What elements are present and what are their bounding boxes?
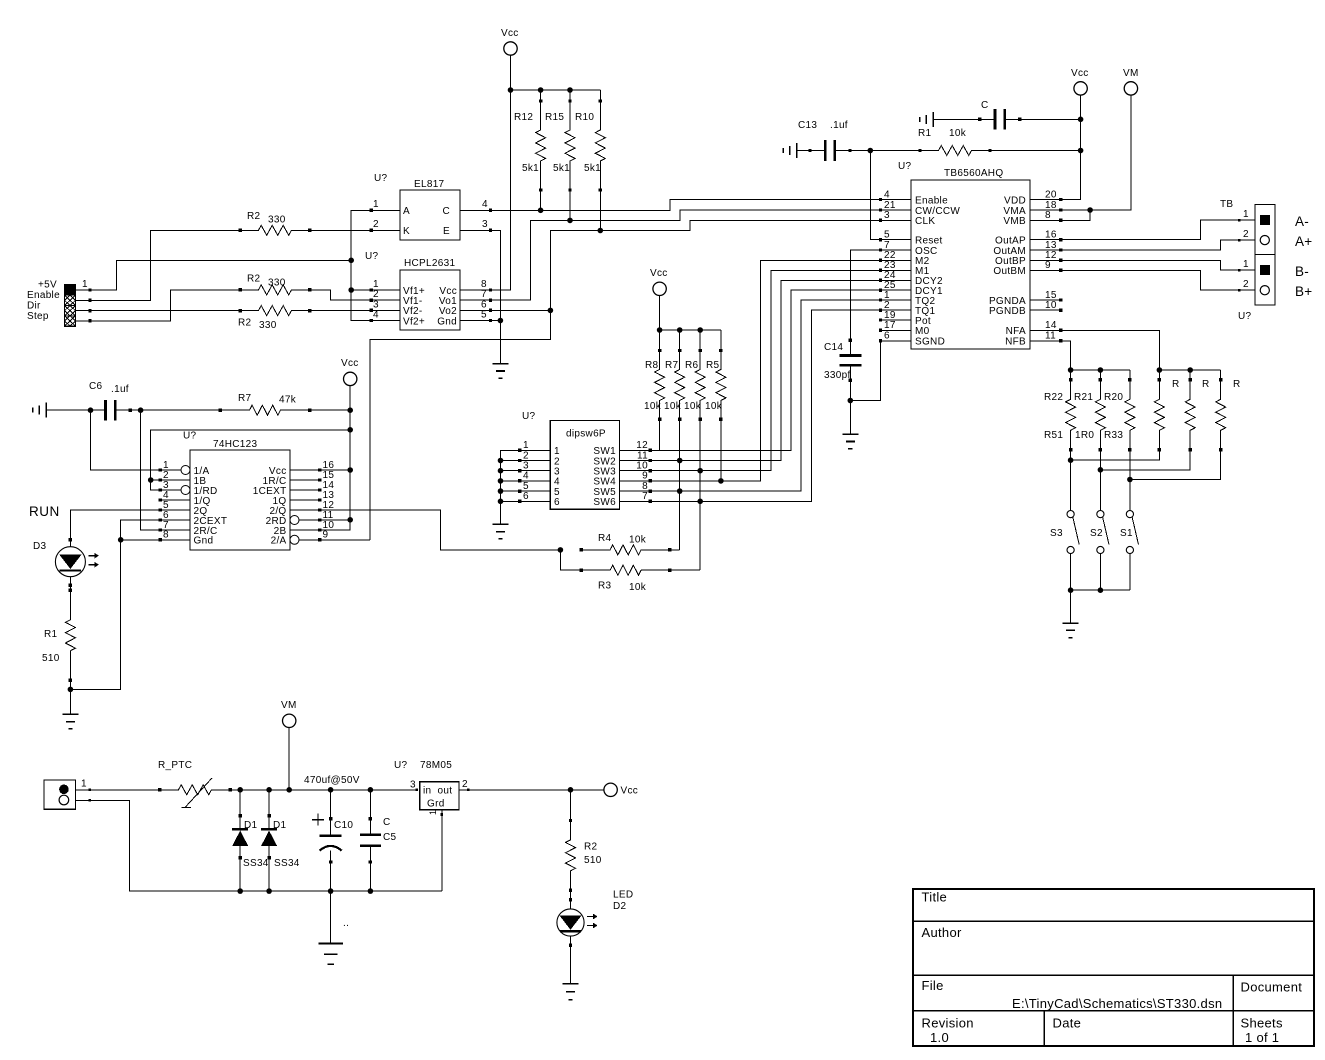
svg-text:S1: S1 (1120, 528, 1133, 539)
svg-text:.1uf: .1uf (830, 120, 848, 131)
svg-text:10k: 10k (664, 401, 682, 412)
diode D1 SS34 (second) (261, 790, 300, 891)
node C14/SGND junction (848, 398, 854, 404)
svg-text:A-: A- (1295, 214, 1309, 229)
wire R7 bottom through SW rows to R4 (679, 419, 681, 550)
svg-text:10k: 10k (629, 535, 647, 546)
wire Vcc vertical rail x=511 down to HCPL pin 8 (491, 55, 511, 290)
node Vcc/C junction (1078, 117, 1084, 123)
svg-text:9: 9 (323, 530, 329, 541)
power symbol Vcc (dip switch pull-ups) (650, 268, 668, 295)
wire Vo1 up and across y=220.4 to CW/CCW jog (491, 210, 881, 300)
node rail/R6 (697, 327, 703, 333)
resistor R22/R51 (1044, 378, 1076, 452)
pin 7 Vo1 of HCPL2631 (439, 289, 492, 307)
svg-text:U?: U? (898, 161, 912, 172)
label U? (78M05) (394, 760, 408, 771)
svg-text:E:\TinyCad\Schematics\ST330.ds: E:\TinyCad\Schematics\ST330.dsn (1012, 996, 1222, 1011)
svg-text:D2: D2 (613, 901, 627, 912)
svg-text:B-: B- (1295, 264, 1309, 279)
svg-text:M0: M0 (915, 326, 930, 337)
svg-text:9: 9 (1045, 260, 1051, 271)
label U? (EL817) (374, 173, 388, 184)
svg-text:OutBM: OutBM (993, 266, 1026, 277)
op-amp U? EL817 optocoupler body (400, 190, 460, 240)
svg-text:CW/CCW: CW/CCW (915, 206, 960, 217)
svg-text:OutAM: OutAM (993, 246, 1026, 257)
svg-text:510: 510 (584, 855, 602, 866)
svg-text:C: C (981, 100, 989, 111)
wire R1 bottom to ground (69, 680, 71, 714)
wire TQ1 bus (650, 310, 880, 501)
wire OutAM to TB pin 2 (A+) (1061, 239, 1255, 250)
node rail/R8 (657, 327, 663, 333)
svg-text:S2: S2 (1090, 528, 1103, 539)
wire R15 bottom to CW/CCW net (569, 190, 571, 220)
svg-text:Vf2-: Vf2- (403, 306, 423, 317)
wire pull-up rail y=330 (660, 329, 721, 331)
pin 1 TQ2 of TB6560AHQ (879, 290, 936, 307)
svg-text:R1: R1 (44, 629, 58, 640)
svg-text:1: 1 (428, 810, 438, 815)
pin 16 Vcc of 74HC123 (269, 460, 334, 477)
svg-text:R8: R8 (645, 360, 659, 371)
svg-text:HCPL2631: HCPL2631 (404, 258, 455, 269)
wire OutBM to TB pin 2 (B+) (1061, 270, 1255, 291)
svg-text:R2: R2 (247, 274, 261, 285)
wire sense rail 2 (1159, 369, 1220, 371)
node C6/R7 junction (138, 407, 144, 413)
wire R2 bottom output to Vf2- (310, 310, 372, 312)
LED D3 (33, 541, 99, 577)
svg-text:TB6560AHQ: TB6560AHQ (944, 168, 1003, 179)
wire gnd rail to ground symbol (330, 891, 332, 943)
wire E pin down to HCPL Gnd and ground (491, 230, 501, 363)
svg-text:8: 8 (1045, 210, 1051, 221)
node C10/gnd rail (328, 888, 334, 894)
pin 10 SW3 of dipsw6P (593, 461, 652, 478)
svg-text:D1: D1 (273, 820, 287, 831)
node +5V / anode-bus junction (348, 258, 354, 264)
svg-text:C: C (442, 206, 450, 217)
wire out to Vcc (468, 789, 604, 791)
svg-text:330: 330 (268, 278, 286, 289)
label pin 1 of power input (81, 779, 87, 790)
wire C-pin net y=210 to Enable jog (491, 200, 881, 211)
svg-text:R51: R51 (1044, 430, 1063, 441)
pin 5 of dipsw6P (518, 481, 560, 498)
node Vcc/R1 junction (1078, 148, 1084, 154)
label U? (TB) (1238, 311, 1252, 322)
wire DCY1 bus (650, 290, 880, 450)
wire R6 bottom through SW rows to R3 (699, 419, 701, 570)
node R6/SW3 (697, 468, 703, 474)
thermistor R_PTC (158, 760, 232, 808)
pin 11 SW2 of dipsw6P (593, 450, 652, 467)
svg-text:NFB: NFB (1005, 337, 1026, 348)
label HCPL2631 (404, 258, 455, 269)
svg-text:A: A (403, 206, 410, 217)
wire C6 right to R7 (130, 409, 220, 411)
svg-text:R7: R7 (238, 393, 252, 404)
capacitor C6 .1uf (89, 381, 132, 421)
svg-text:U?: U? (394, 760, 408, 771)
node rail1/R22 (1068, 367, 1074, 373)
label RUN (29, 504, 60, 519)
svg-text:7: 7 (884, 240, 890, 251)
svg-text:R12: R12 (514, 112, 533, 123)
wire R(4) top drop (1158, 370, 1160, 380)
wire 2/A to Vo2 net riser (320, 539, 370, 541)
resistor R6 10k (684, 349, 705, 421)
pin 11 NFB of TB6560AHQ (1005, 331, 1062, 348)
svg-text:VDD: VDD (1004, 195, 1026, 206)
svg-text:Vcc: Vcc (1071, 68, 1089, 79)
label 1 of 1 (1245, 1030, 1279, 1045)
svg-text:5k1: 5k1 (522, 163, 539, 174)
svg-text:C6: C6 (89, 381, 103, 392)
pin 9 OutBM of TB6560AHQ (993, 260, 1062, 277)
svg-text:R21: R21 (1074, 392, 1093, 403)
svg-text:R2: R2 (247, 211, 261, 222)
wire 1B/1RD tie-high line (151, 430, 351, 490)
svg-text:6: 6 (523, 491, 529, 502)
svg-text:K: K (403, 226, 410, 237)
node 1B junction (148, 477, 160, 483)
svg-text:330pf: 330pf (824, 370, 851, 381)
label Enable (27, 290, 60, 301)
pin 24 DCY2 of TB6560AHQ (879, 270, 943, 287)
label TB (1220, 199, 1233, 210)
svg-text:Vo2: Vo2 (439, 306, 457, 317)
wire R10 bottom to CLK net (599, 190, 601, 231)
capacitor C10 470uf (polarized) (312, 790, 353, 891)
node S2 rail (1098, 587, 1104, 593)
node out/R2 junction (568, 787, 574, 793)
node R15 junction (567, 218, 573, 224)
pin 10 PGNDB of TB6560AHQ (989, 300, 1062, 317)
node Vcc/pin16 (347, 467, 353, 473)
svg-text:Title: Title (922, 890, 948, 905)
node anode bus / Vf1+ junction (348, 287, 371, 293)
label B+ (1295, 284, 1313, 299)
node junction R15 top (567, 87, 573, 93)
ground (C13 left, rotated) (783, 143, 797, 158)
connector +5V/Enable/Dir/Step 4-pin header (65, 285, 76, 326)
pin 3 of dipsw6P (518, 461, 560, 478)
label A+ (1295, 234, 1313, 249)
svg-text:OutAP: OutAP (995, 235, 1026, 246)
pin 1 of dipsw6P (518, 440, 560, 457)
node junction Vcc rail (508, 87, 514, 93)
label .. (stray mark) (343, 918, 349, 929)
svg-text:78M05: 78M05 (420, 760, 452, 771)
pin 4 C of EL817 (442, 199, 492, 217)
wire sense rail 1 (1071, 369, 1130, 371)
pin 6 of dipsw6P (518, 491, 560, 508)
pin 1 A- of TB (1243, 209, 1270, 225)
power symbol VM (input) (281, 700, 297, 728)
wire Vo2 branch down to 2/A net (370, 310, 551, 539)
svg-text:Revision: Revision (922, 1016, 974, 1031)
pin 5 Gnd of HCPL2631 (437, 310, 492, 328)
pin 12 2/Q of 74HC123 (269, 500, 334, 517)
svg-text:+5V: +5V (38, 280, 57, 291)
wire R2 to D2 (569, 890, 572, 909)
pin 1 Vf1+ of HCPL2631 (370, 279, 425, 297)
pin 3 E of EL817 (443, 219, 492, 237)
wire S1 to gnd rail (1129, 554, 1131, 591)
wire pull-up rail y=90 (511, 89, 601, 91)
node D1b/+rail (266, 787, 272, 793)
power symbol VM (TB6560 VMA/VMB) (1123, 68, 1139, 95)
node E/Gnd junction (491, 318, 504, 324)
wire C13 left lead (797, 150, 811, 152)
svg-text:R2: R2 (584, 842, 598, 853)
resistor R10 (575, 99, 605, 191)
svg-text:VMB: VMB (1003, 216, 1026, 227)
svg-text:in: in (423, 786, 431, 797)
node C5/+rail (368, 787, 374, 793)
wire pin16 Vcc stub to rail (320, 469, 350, 471)
wire D3 to R1 (69, 577, 72, 591)
wire pin11 2RD stub to rail (320, 519, 350, 521)
resistor R (col 4) (1154, 378, 1179, 452)
label Date (1053, 1016, 1082, 1031)
svg-text:S3: S3 (1050, 528, 1063, 539)
label Dir (27, 301, 41, 312)
svg-text:D3: D3 (33, 541, 47, 552)
pin 7 OSC of TB6560AHQ (879, 240, 938, 257)
pin 2 Vf1- of HCPL2631 (370, 289, 423, 307)
label U? (TB6560AHQ) (898, 161, 912, 172)
svg-text:R: R (1233, 379, 1241, 390)
pin 2 B+ of TB (1243, 279, 1269, 295)
node S3 rail (1068, 587, 1074, 593)
wire NFA to sense rail 2 (1061, 330, 1160, 370)
node D1a/gnd rail (237, 888, 243, 894)
svg-text:Vcc: Vcc (501, 28, 519, 39)
capacitor C5 (360, 790, 397, 891)
svg-text:R22: R22 (1044, 392, 1063, 403)
pin 13 OutAM of TB6560AHQ (993, 240, 1062, 257)
wire M1 bus (650, 270, 880, 470)
wire Reset riser (870, 151, 880, 240)
wire R20 column down to S1 (1129, 450, 1131, 511)
label pin 3 of 78M05 (410, 780, 416, 791)
svg-text:1: 1 (1243, 209, 1249, 220)
node R10 junction (598, 228, 604, 234)
node R4/R3 junction (558, 547, 564, 553)
svg-text:Vf2+: Vf2+ (403, 317, 425, 328)
node R21col/railB (1098, 467, 1104, 473)
wire R7 to Vcc vertical (310, 409, 351, 411)
svg-text:VMA: VMA (1003, 206, 1026, 217)
wire R2 top output to K pin (310, 229, 372, 231)
pin 14 NFA of TB6560AHQ (1006, 320, 1063, 337)
svg-text:PGNDB: PGNDB (989, 306, 1026, 317)
wire rail to ground (1070, 590, 1072, 623)
node R12/Enable-net junction (538, 208, 544, 214)
pin 4 1/Q of 74HC123 (159, 490, 211, 507)
resistor R2 330 (Step, middle) (238, 274, 311, 295)
node R20col/railC (1127, 477, 1133, 483)
ground (LED D2) (563, 984, 579, 1000)
node Gnd pin junction (118, 537, 160, 543)
resistor R8 10k (644, 349, 665, 421)
resistor R2 330 (Enable, top) (238, 211, 311, 235)
wire 2Q to D3 (69, 510, 161, 547)
node C13/Reset junction (868, 148, 874, 154)
wire R(6) bottom to R20 column (1130, 450, 1221, 480)
svg-text:8: 8 (163, 530, 169, 541)
node D1a/+rail (237, 787, 243, 793)
ground (dipsw common) (493, 524, 509, 538)
svg-text:1: 1 (81, 779, 87, 790)
node R5/SW4 (718, 478, 724, 484)
svg-text:SW6: SW6 (593, 497, 616, 508)
wire R21 column down to S2 (1099, 450, 1101, 511)
svg-text:R1: R1 (918, 128, 932, 139)
svg-text:SGND: SGND (915, 337, 945, 348)
svg-text:1: 1 (1243, 259, 1249, 270)
wire OutAP to TB pin 1 (A-) (1061, 219, 1255, 240)
label in out Grd (423, 786, 452, 810)
pin 14 1CEXT of 74HC123 (253, 480, 335, 497)
svg-text:C14: C14 (824, 342, 843, 353)
svg-text:C5: C5 (383, 832, 397, 843)
svg-text:U?: U? (183, 431, 197, 442)
svg-text:R3: R3 (598, 581, 612, 592)
pin 22 M2 of TB6560AHQ (879, 250, 930, 267)
node Vcc/R7 (347, 407, 353, 413)
pin 23 M1 of TB6560AHQ (879, 260, 930, 277)
node D1b/gnd rail (266, 888, 272, 894)
svg-text:A+: A+ (1295, 234, 1313, 249)
connector TB terminal block body (1255, 205, 1275, 306)
svg-text:.1uf: .1uf (111, 384, 129, 395)
pin 3 CLK of TB6560AHQ (879, 210, 936, 227)
resistor R7 47k (219, 393, 312, 415)
svg-text:10k: 10k (705, 401, 723, 412)
wire C14 bottom to ground (849, 380, 851, 434)
svg-text:E: E (443, 226, 450, 237)
pin 4 of dipsw6P (518, 471, 560, 488)
svg-text:R15: R15 (545, 112, 564, 123)
pin 2 A+ of TB (1243, 229, 1269, 245)
wire R12 top drop (540, 90, 542, 101)
resistor R15 (545, 99, 575, 191)
pin 9 2/A of 74HC123 (271, 530, 329, 547)
wire R22 top drop (1070, 370, 1072, 380)
svg-text:Sheets: Sheets (1241, 1016, 1283, 1031)
pin 9 SW4 of dipsw6P (593, 471, 652, 488)
pin 15 1R/C of 74HC123 (263, 470, 335, 487)
resistor R5 10k (705, 349, 726, 421)
svg-text:1.0: 1.0 (930, 1030, 949, 1045)
pin 1 Grd of 78M05 (428, 810, 443, 891)
svg-text:470uf@50V: 470uf@50V (304, 775, 360, 786)
wire RC node down to 2R/C (141, 410, 161, 530)
title block row lines (913, 921, 1314, 1011)
label 470uf@50V (304, 775, 360, 786)
node C10/+rail (328, 787, 334, 793)
wire C6 left lead (46, 409, 90, 411)
label 74HC123 (213, 439, 257, 450)
pin 3 Vf2- of HCPL2631 (370, 300, 423, 318)
connector power input 2-pin (44, 780, 76, 809)
svg-text:10: 10 (1045, 300, 1057, 311)
label Sheets (1241, 1016, 1283, 1031)
svg-text:R6: R6 (685, 360, 699, 371)
wire Vcc node down to R2 (569, 790, 572, 822)
op-amp U? 74HC123 body (190, 450, 290, 550)
op-amp U? 78M05 regulator body (420, 782, 459, 810)
svg-text:Reset: Reset (915, 235, 943, 246)
pin 20 VDD of TB6560AHQ (1004, 189, 1062, 206)
svg-text:2/A: 2/A (271, 536, 287, 547)
svg-text:SS34: SS34 (243, 858, 269, 869)
switch S3 (1050, 510, 1079, 553)
label Title (922, 890, 948, 905)
pin 5 2Q of 74HC123 (159, 500, 208, 517)
svg-text:R: R (1172, 379, 1180, 390)
switch S2 (1090, 510, 1109, 553)
wire R15 top drop (569, 90, 571, 101)
svg-text:VM: VM (281, 700, 297, 711)
svg-text:2: 2 (1243, 279, 1249, 290)
title block frame (913, 889, 1314, 1046)
svg-text:Enable: Enable (27, 290, 60, 301)
resistor R (col 5) (1185, 378, 1209, 452)
svg-text:Vcc: Vcc (621, 786, 639, 797)
diode D1 SS34 (first) (232, 790, 269, 891)
wire R8 bottom to SW1 row (659, 419, 661, 450)
svg-text:4: 4 (373, 310, 379, 321)
svg-text:C13: C13 (798, 120, 817, 131)
svg-text:C: C (383, 817, 391, 828)
svg-text:C10: C10 (334, 820, 353, 831)
wire C left lead (933, 118, 981, 121)
svg-text:Date: Date (1053, 1016, 1082, 1031)
wire Vcc drop to VDD (1061, 95, 1081, 199)
node Vcc/2RD (347, 517, 353, 523)
wire + rail to 78M05 in (230, 789, 418, 792)
label 78M05 (420, 760, 452, 771)
wire R1 to Vcc rail (990, 150, 1081, 152)
node junction R12 top (538, 87, 544, 93)
svg-text:Grd: Grd (427, 799, 445, 810)
svg-text:2: 2 (373, 219, 379, 230)
svg-text:B+: B+ (1295, 284, 1313, 299)
wire R5 bottom to SW4 row (720, 419, 722, 481)
node dipsw pin5 common junction (498, 488, 504, 494)
svg-text:Gnd: Gnd (194, 536, 214, 547)
wire 2CEXT down to ground node (70, 520, 160, 689)
pin 4 Enable of TB6560AHQ (879, 189, 948, 206)
svg-text:Vcc: Vcc (650, 268, 668, 279)
power symbol Vcc (TB6560 VDD) (1071, 68, 1089, 95)
wire C6 left node down to 1/A (91, 410, 161, 470)
label Step (27, 311, 49, 322)
wire R10 top drop (599, 90, 601, 101)
label B- (1295, 264, 1309, 279)
node rail2/R(5) (1187, 367, 1193, 373)
node C5/gnd rail (368, 888, 374, 894)
svg-text:R2: R2 (238, 318, 252, 329)
node R6/SW6 (697, 499, 703, 505)
wire C13 to R1 row (850, 150, 920, 152)
